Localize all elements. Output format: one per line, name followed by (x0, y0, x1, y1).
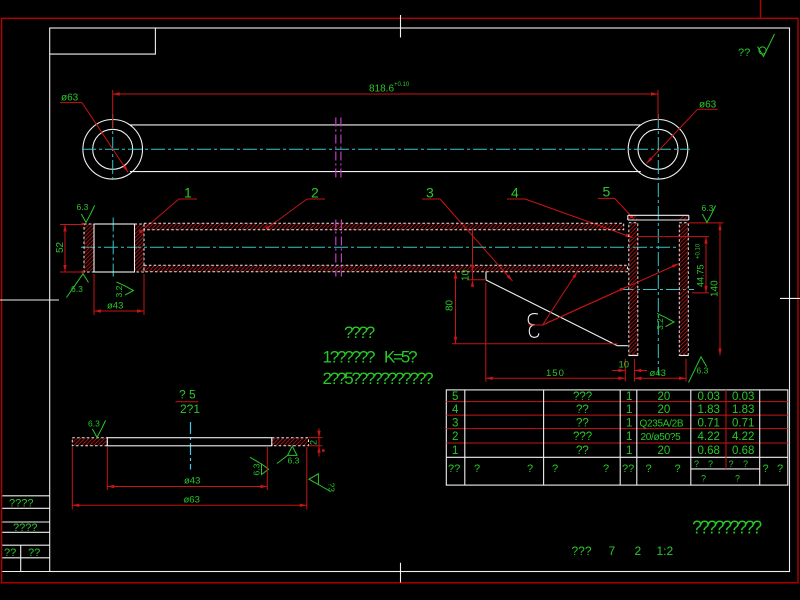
dimension 140 (710, 223, 722, 355)
svg-text:????: ???? (344, 323, 375, 342)
roughness check symbol (759, 47, 766, 54)
svg-text:5: 5 (603, 184, 611, 200)
svg-text:0.68: 0.68 (698, 445, 720, 457)
roller body top line (130, 124, 641, 126)
svg-text:?: ? (527, 463, 533, 475)
svg-text:ø43: ø43 (184, 476, 200, 487)
table vertical white lines (465, 390, 760, 485)
left cap hatched wall left (84, 224, 94, 272)
svg-text:6.3: 6.3 (702, 203, 714, 213)
left cap body outline (94, 224, 135, 272)
svg-text:2: 2 (452, 431, 458, 443)
balloon 4 (507, 185, 633, 240)
svg-text:44.75: 44.75 (696, 264, 706, 287)
svg-text:?: ? (552, 463, 558, 475)
svg-text:? 5: ? 5 (179, 388, 196, 402)
roller right end circle inner (638, 129, 678, 169)
frame tick left center (0, 299, 59, 301)
table header row texts (448, 463, 783, 475)
svg-text:ø63: ø63 (61, 93, 79, 104)
svg-text:???: ??? (573, 431, 592, 443)
dimension 150 (486, 283, 626, 382)
svg-text:??: ?? (4, 547, 16, 559)
svg-text:20: 20 (658, 445, 671, 457)
roughness 6.3 below bracket (689, 357, 709, 383)
svg-text:6.3: 6.3 (71, 284, 83, 294)
svg-text:????: ???? (13, 522, 37, 534)
svg-text:0.03: 0.03 (732, 391, 754, 403)
frame tick right center (780, 297, 800, 299)
left circle vertical centerline (112, 114, 114, 183)
svg-text:3.2: 3.2 (114, 285, 124, 297)
svg-text:1: 1 (626, 404, 632, 416)
gusset plate edges (486, 272, 628, 346)
svg-text:?: ? (603, 463, 609, 475)
roller right end circle outer (628, 120, 688, 180)
left cap hatched wall right (135, 224, 145, 272)
roller left end circle outer (83, 120, 143, 180)
roughness 6.3 rotated at diameter43 line (250, 457, 269, 475)
svg-text:80: 80 (445, 299, 456, 311)
svg-text:140: 140 (710, 280, 721, 297)
table red row separators (446, 402, 788, 443)
detail bar right hatched end (272, 438, 309, 446)
table horizontal white lines (446, 457, 788, 469)
table row 2 (452, 431, 754, 443)
svg-text:??: ?? (576, 417, 589, 429)
svg-text:1: 1 (626, 445, 632, 457)
title block scale row (572, 544, 674, 558)
weld symbol hook (528, 314, 539, 338)
table row 5 (452, 391, 754, 403)
break lines top view (magenta) (335, 118, 337, 181)
svg-text:2: 2 (309, 440, 319, 445)
svg-text:1: 1 (626, 391, 632, 403)
tube top wall (hatched) (144, 223, 624, 230)
svg-text:2??5???????????: 2??5??????????? (323, 369, 434, 388)
detail bar body (107, 438, 271, 446)
left cap centerline vertical (112, 218, 114, 277)
svg-text:2: 2 (635, 544, 642, 558)
roller left end circle inner (93, 129, 133, 169)
svg-text:20: 20 (658, 404, 671, 416)
label diameter 63 left (60, 93, 130, 174)
svg-text:20/ø50?5: 20/ø50?5 (641, 432, 682, 443)
bracket hole centerline (620, 289, 694, 291)
svg-text:1: 1 (452, 445, 458, 457)
dimension 44.75 (638, 237, 709, 293)
svg-text:6.3: 6.3 (288, 456, 300, 466)
svg-text:+0.10: +0.10 (696, 243, 702, 259)
svg-text:1??????: 1?????? (323, 348, 376, 367)
svg-text:1.83: 1.83 (732, 404, 754, 416)
svg-text:4: 4 (452, 404, 459, 416)
svg-text:?3: ?3 (327, 483, 337, 493)
svg-text:Q235A/2B: Q235A/2B (640, 418, 684, 429)
break lines section (magenta) (335, 220, 337, 277)
dimension 10 gusset drop (461, 228, 487, 287)
svg-text:3: 3 (426, 185, 434, 201)
svg-text:??: ?? (576, 445, 589, 457)
svg-text:1: 1 (184, 185, 192, 201)
svg-text:??: ?? (622, 463, 634, 475)
svg-text:1: 1 (626, 417, 632, 429)
svg-text:ø43: ø43 (107, 301, 123, 312)
svg-text:????: ???? (9, 498, 33, 510)
svg-text:?: ? (777, 463, 783, 475)
top view horizontal centerline (82, 148, 690, 150)
svg-text:0.71: 0.71 (732, 417, 754, 429)
svg-text:4: 4 (511, 185, 519, 201)
detail bar left hatched end (72, 438, 107, 446)
bracket right wall (hatched) (679, 223, 688, 355)
svg-text:?: ? (646, 463, 652, 475)
svg-text:150: 150 (546, 368, 565, 379)
weld leader lines (529, 262, 680, 325)
svg-text:?: ? (675, 463, 681, 475)
svg-text:6.3: 6.3 (88, 419, 100, 429)
svg-text:ø63: ø63 (184, 495, 200, 506)
dimension 80 (445, 272, 618, 344)
svg-text:?: ? (763, 463, 769, 475)
roughness 6.3 bracket top right (702, 203, 716, 223)
roughness 6.3 cap top (77, 202, 95, 223)
svg-text:?: ? (735, 474, 740, 484)
section main centerline (81, 246, 677, 248)
svg-text:6.3: 6.3 (252, 463, 262, 475)
table outer border (446, 390, 788, 485)
svg-text:??: ?? (738, 47, 750, 59)
dimension 818.6 (113, 82, 658, 128)
svg-text:52: 52 (55, 241, 66, 253)
svg-text:??: ?? (576, 404, 589, 416)
frame tick bottom center (400, 563, 402, 583)
svg-text:?: ? (694, 459, 699, 469)
dimension 140 extension top (689, 222, 724, 224)
svg-text:2: 2 (311, 185, 319, 201)
balloon 2 (266, 185, 325, 230)
svg-text:?: ? (474, 463, 480, 475)
label diameter 63 right (645, 100, 717, 165)
roughness 6.3 detail bottom mid (277, 446, 300, 465)
roughness symbol at diameter63 line (309, 474, 337, 492)
table row 3 (452, 417, 754, 429)
table red vertical divider (725, 390, 727, 469)
frame tick top center (400, 15, 402, 38)
bracket bottom closing lines (629, 355, 689, 357)
roughness 3.2 inside bracket (655, 313, 674, 330)
svg-text:3.2: 3.2 (655, 318, 665, 330)
svg-text:???: ??? (573, 391, 592, 403)
svg-text:6.3: 6.3 (697, 366, 709, 376)
svg-text:10: 10 (461, 269, 472, 281)
dimension diameter63 detail (72, 447, 306, 510)
svg-text:??: ?? (28, 547, 40, 559)
svg-text:4.22: 4.22 (698, 431, 720, 443)
dimension diameter43 detail (107, 447, 267, 490)
svg-text:ø43: ø43 (650, 368, 666, 379)
left margin table (2, 496, 49, 572)
left table texts (4, 498, 40, 560)
dimension 10 gap (612, 359, 647, 382)
svg-text:1:2: 1:2 (657, 544, 674, 558)
roughness 6.3 detail top left (88, 419, 106, 438)
svg-text:???: ??? (572, 544, 592, 558)
roughness 6.3 cap bottom (67, 274, 89, 298)
svg-text:6.3: 6.3 (77, 202, 89, 212)
svg-text:0.68: 0.68 (732, 445, 754, 457)
svg-text:?: ? (708, 459, 713, 469)
roughness 3.2 below cap (114, 282, 134, 298)
detail centerline (190, 422, 192, 470)
svg-text:818.6: 818.6 (369, 84, 394, 95)
detail label ?5 / 2:1 (176, 388, 201, 416)
svg-text:?: ? (729, 459, 734, 469)
balloon 1 (139, 185, 197, 234)
balloon 5 (598, 184, 634, 219)
dimension 52 left (55, 223, 84, 273)
dimension 2 detail right (309, 429, 325, 457)
shared vertical centerline right circle + bracket (657, 114, 659, 375)
table row 1 (452, 445, 754, 457)
svg-text:2?1: 2?1 (180, 402, 200, 416)
svg-text:1.83: 1.83 (698, 404, 720, 416)
top-right general roughness note ?? (738, 34, 775, 59)
tube bottom wall (hatched) (144, 265, 628, 272)
svg-text:4.22: 4.22 (732, 431, 754, 443)
svg-text:?: ? (743, 459, 748, 469)
svg-text:K=5?: K=5? (384, 348, 417, 367)
red crop tick top-right (760, 0, 762, 18)
balloon 3 (422, 185, 514, 283)
dimension diameter43 bracket (634, 359, 686, 382)
svg-text:10: 10 (619, 360, 630, 371)
svg-text:5: 5 (452, 391, 458, 403)
svg-text:20: 20 (658, 391, 671, 403)
svg-text:1: 1 (626, 431, 632, 443)
svg-text:?????????: ????????? (692, 518, 762, 538)
dimension diameter43 below cap (94, 274, 144, 315)
roller body bottom line (130, 171, 641, 173)
top-left attachment box (50, 28, 156, 54)
table header weight subcells (694, 459, 748, 484)
svg-text:+0.10: +0.10 (394, 82, 410, 88)
bracket top cap plate (628, 215, 689, 220)
svg-text:3: 3 (452, 417, 458, 429)
svg-text:7: 7 (609, 544, 616, 558)
svg-text:?: ? (701, 474, 706, 484)
bracket left wall (hatched) (629, 223, 638, 355)
svg-text:0.03: 0.03 (698, 391, 720, 403)
svg-text:??: ?? (448, 463, 460, 475)
table row 4 (452, 404, 754, 416)
svg-text:0.71: 0.71 (698, 417, 720, 429)
